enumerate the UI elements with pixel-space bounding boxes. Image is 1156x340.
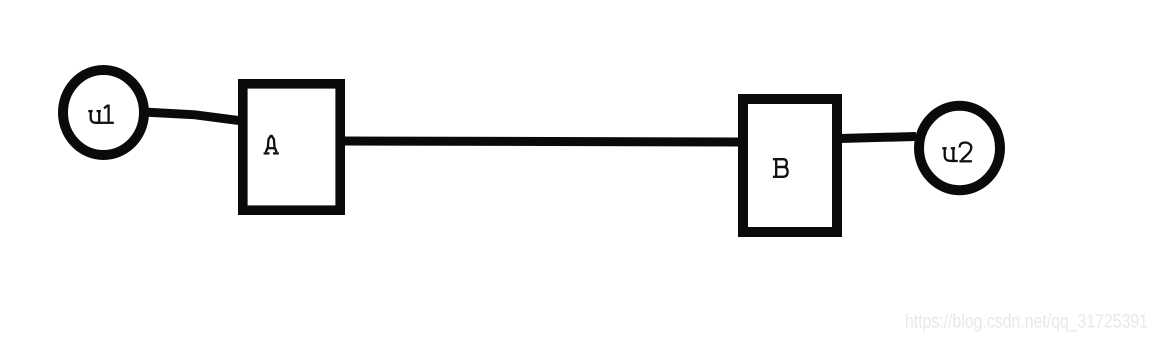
svg-text:https://blog.csdn.net/qq_31725: https://blog.csdn.net/qq_31725391 xyxy=(905,311,1148,333)
